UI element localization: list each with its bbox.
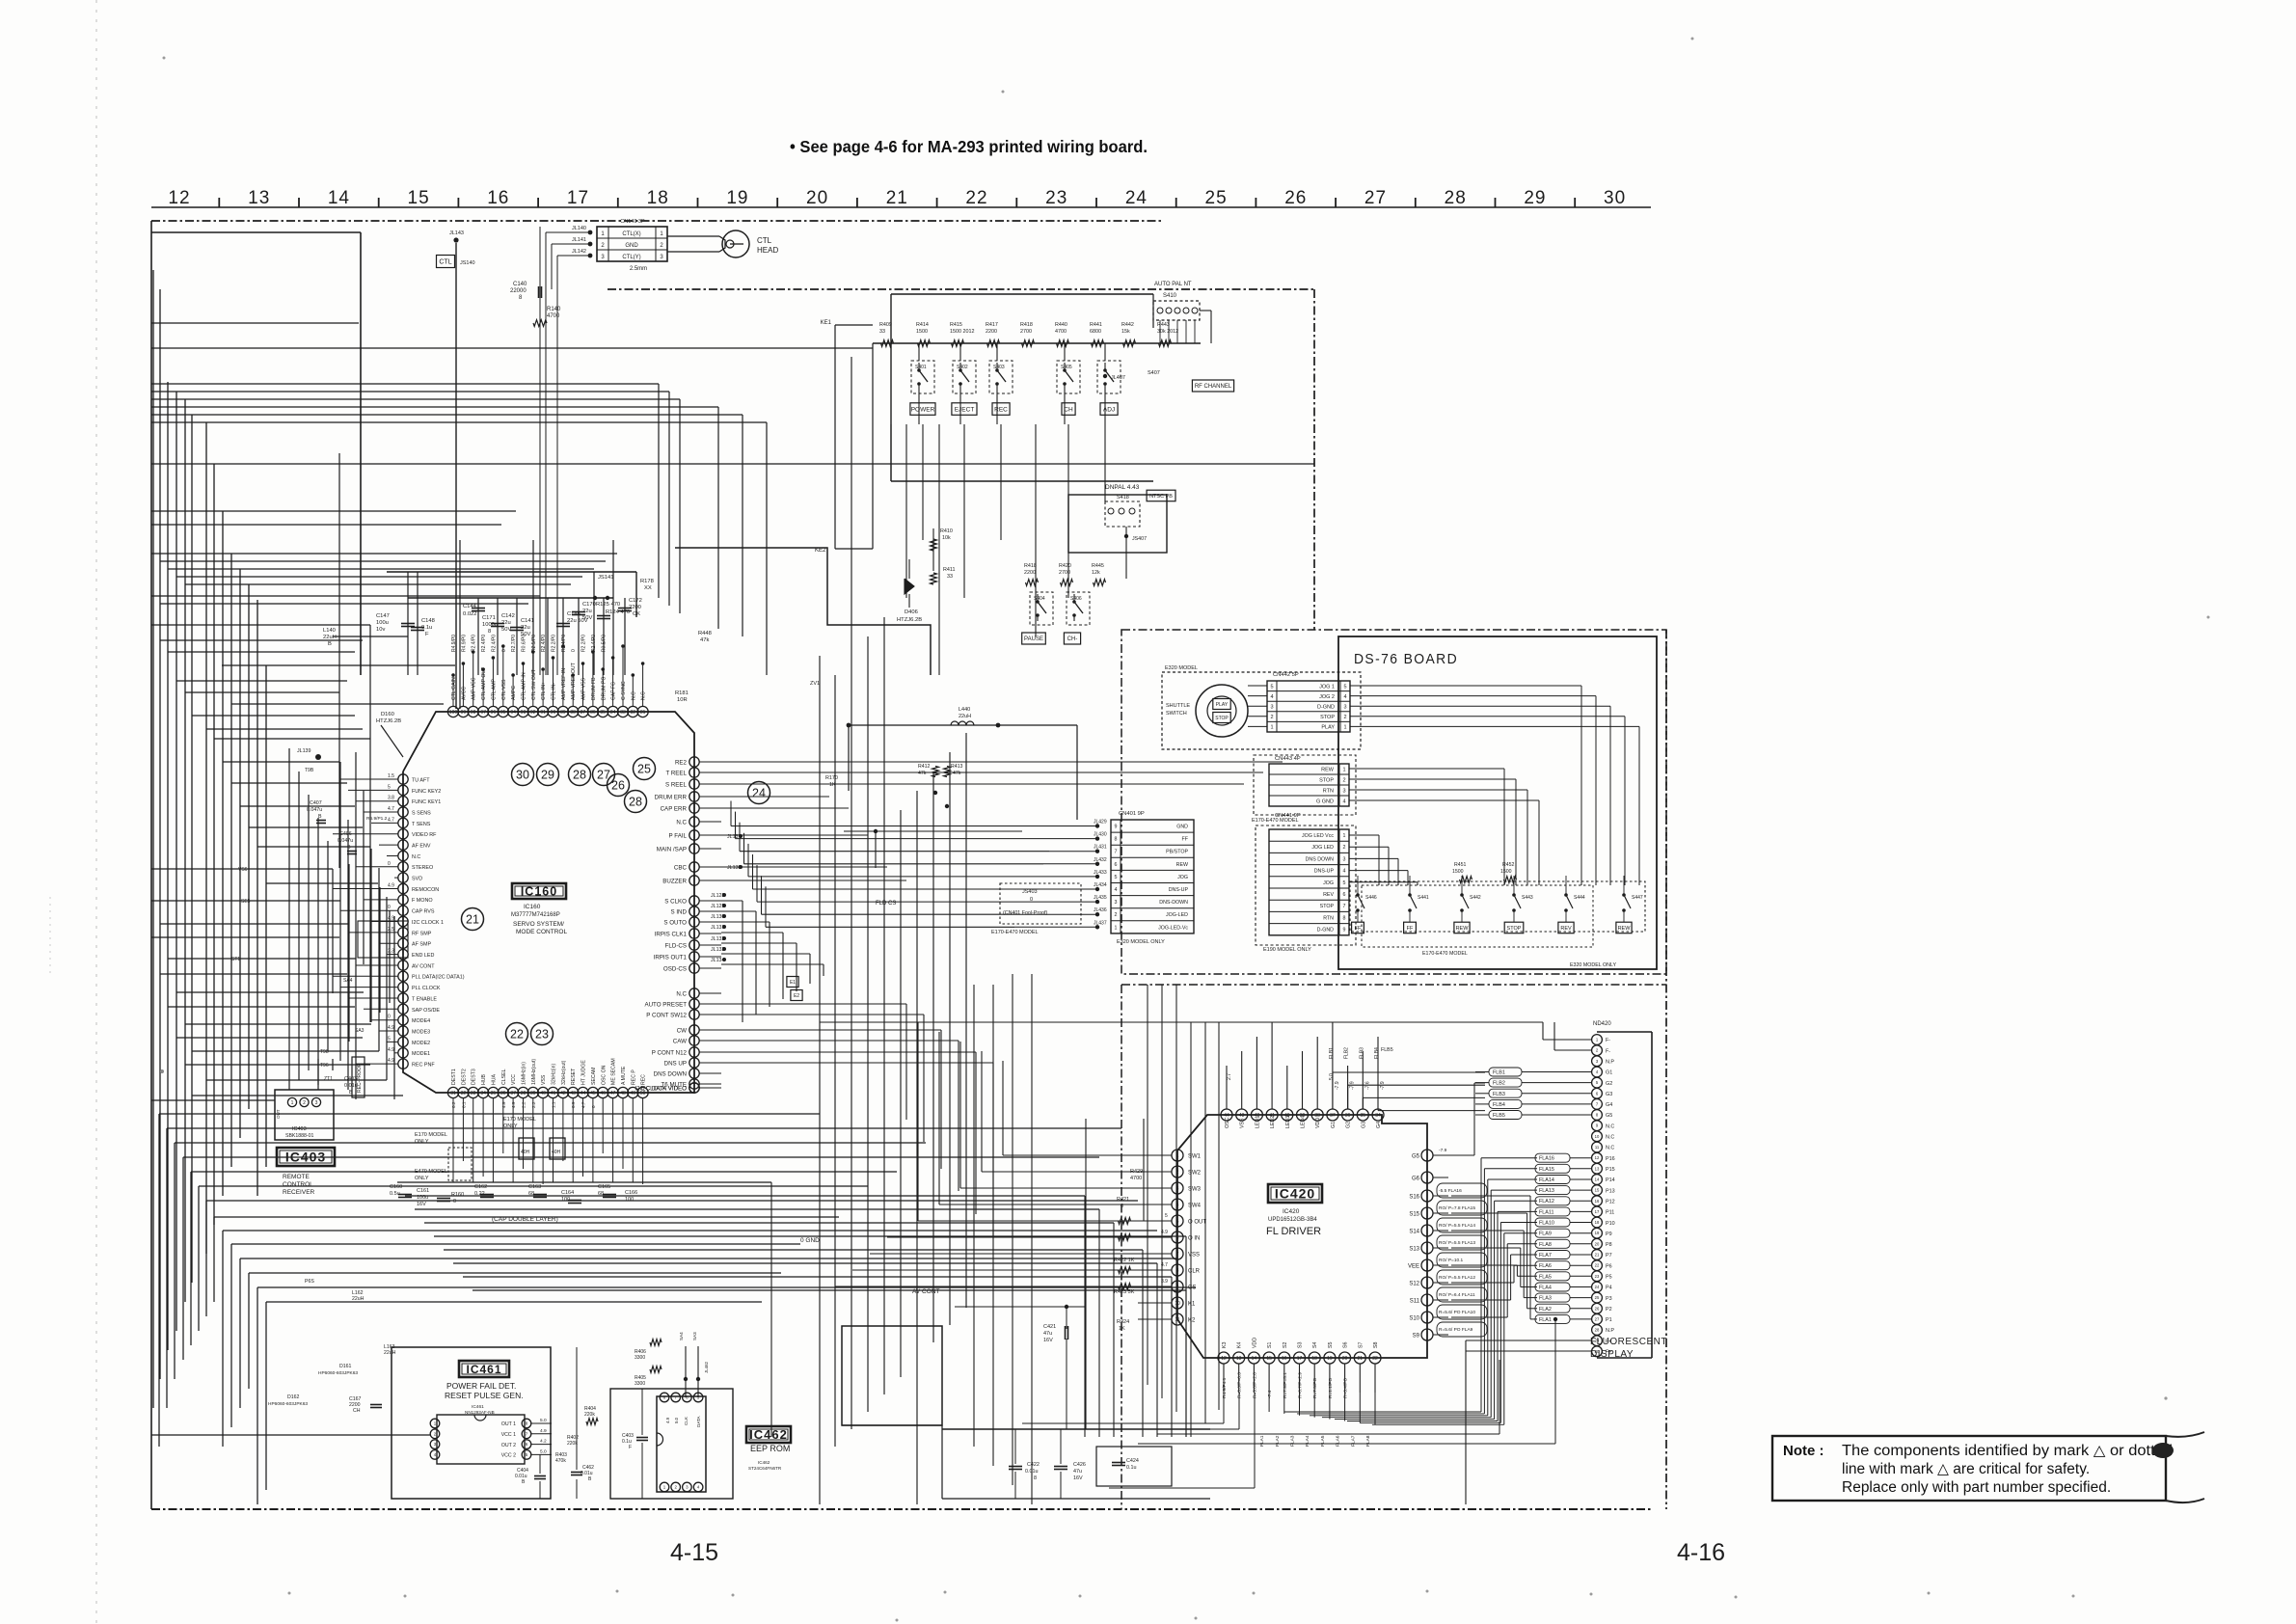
svg-text:SA4: SA4 [679, 1332, 684, 1340]
svg-text:P11: P11 [1606, 1210, 1614, 1216]
svg-text:16: 16 [1282, 1356, 1287, 1362]
svg-text:R140: R140 [547, 307, 561, 312]
svg-text:CONTROL: CONTROL [283, 1181, 313, 1188]
svg-text:B: B [347, 845, 351, 851]
svg-text:R441: R441 [1090, 322, 1102, 328]
svg-text:JL142: JL142 [572, 249, 586, 255]
svg-text:R=7.5/PO: R=7.5/PO [1312, 1378, 1318, 1398]
svg-text:C142: C142 [501, 613, 515, 619]
svg-text:C SYNC: C SYNC [621, 681, 627, 700]
svg-text:22u: 22u [501, 620, 511, 626]
svg-text:17: 17 [1595, 1209, 1600, 1214]
svg-text:HEAD: HEAD [757, 246, 778, 255]
svg-text:IC160: IC160 [521, 885, 557, 899]
svg-text:R448: R448 [698, 631, 712, 636]
svg-text:Note :: Note : [1783, 1443, 1824, 1459]
svg-text:12: 12 [168, 188, 190, 208]
svg-text:PLAY: PLAY [1321, 725, 1335, 731]
svg-text:AMPC: AMPC [511, 686, 517, 700]
svg-text:4.7: 4.7 [388, 806, 394, 812]
svg-text:• See page 4-6 for MA-293 prin: • See page 4-6 for MA-293 printed wiring… [790, 137, 1148, 156]
svg-text:JL139: JL139 [297, 748, 311, 754]
svg-text:PLAY: PLAY [1216, 702, 1229, 708]
svg-text:89: 89 [560, 710, 566, 716]
svg-text:NN1293AF-NB: NN1293AF-NB [465, 1410, 495, 1415]
svg-text:OUT 1: OUT 1 [501, 1421, 516, 1427]
svg-text:0.1u: 0.1u [1126, 1465, 1137, 1471]
svg-text:4.9: 4.9 [388, 916, 394, 922]
svg-text:AUTO PAL NT: AUTO PAL NT [1154, 282, 1192, 287]
svg-text:JS140: JS140 [460, 260, 475, 266]
svg-text:100: 100 [449, 710, 458, 716]
svg-text:RF CHANNEL: RF CHANNEL [1195, 384, 1232, 390]
svg-text:9: 9 [1115, 825, 1118, 830]
svg-text:0.2: 0.2 [451, 1101, 456, 1108]
svg-text:13: 13 [1595, 1166, 1600, 1171]
svg-text:R=3.4/PO: R=3.4/PO [1343, 1378, 1349, 1398]
svg-text:ST1: ST1 [231, 957, 240, 962]
svg-text:F-: F- [1606, 1038, 1610, 1043]
svg-text:23: 23 [535, 1027, 549, 1041]
svg-text:REC P: REC P [631, 1069, 636, 1085]
svg-text:22u: 22u [582, 609, 592, 614]
svg-text:CTL AMP: CTL AMP [491, 678, 497, 700]
svg-text:0 GND: 0 GND [800, 1237, 820, 1244]
svg-text:R2.4/P0: R2.4/P0 [491, 635, 497, 652]
svg-text:SBK1888-01: SBK1888-01 [285, 1133, 314, 1139]
svg-text:K3: K3 [1222, 1341, 1228, 1348]
svg-text:VSS: VSS [1240, 1118, 1246, 1128]
svg-text:S15: S15 [1409, 1211, 1419, 1217]
svg-text:G3: G3 [1361, 1122, 1366, 1128]
svg-text:E320 MODEL: E320 MODEL [1165, 665, 1198, 671]
svg-text:S405: S405 [1061, 365, 1072, 370]
svg-text:R443: R443 [1157, 322, 1170, 328]
svg-text:1.5: 1.5 [388, 773, 394, 779]
svg-text:26: 26 [611, 778, 625, 792]
svg-text:91: 91 [540, 710, 546, 716]
svg-text:2: 2 [1342, 778, 1345, 784]
svg-text:28: 28 [629, 795, 642, 808]
svg-text:26: 26 [1284, 188, 1307, 208]
svg-text:2.2: 2.2 [531, 1101, 536, 1108]
svg-text:470k: 470k [555, 1458, 566, 1464]
svg-text:N.C: N.C [641, 691, 647, 700]
svg-text:REW: REW [1321, 768, 1335, 773]
svg-text:8: 8 [1034, 1475, 1037, 1481]
svg-text:SERVO SYSTEM/: SERVO SYSTEM/ [513, 921, 564, 928]
svg-text:MODE3: MODE3 [412, 1030, 430, 1036]
svg-text:ZT1: ZT1 [324, 1076, 333, 1082]
svg-text:F: F [629, 1445, 632, 1450]
svg-text:CAP ERR: CAP ERR [661, 805, 688, 812]
svg-text:FLA13: FLA13 [1539, 1188, 1554, 1194]
svg-text:4700: 4700 [547, 313, 560, 319]
svg-text:R415: R415 [950, 322, 962, 328]
svg-text:11: 11 [1595, 1145, 1600, 1150]
svg-text:5: 5 [388, 784, 391, 790]
svg-text:32kHz(in): 32kHz(in) [552, 1064, 557, 1085]
svg-text:G3: G3 [1606, 1092, 1612, 1097]
svg-text:CK: CK [633, 611, 640, 617]
svg-text:S8: S8 [1373, 1341, 1379, 1348]
svg-text:E190 MODEL ONLY: E190 MODEL ONLY [1263, 947, 1311, 953]
svg-text:R2.4/P0: R2.4/P0 [541, 635, 547, 652]
svg-text:RO/ P=6.4 FLA11: RO/ P=6.4 FLA11 [1439, 1292, 1475, 1298]
svg-text:40H: 40H [521, 1150, 530, 1155]
svg-text:FLA5: FLA5 [1539, 1274, 1552, 1280]
svg-text:-5.5 FLA16: -5.5 FLA16 [1439, 1188, 1462, 1194]
svg-text:24: 24 [1595, 1285, 1600, 1289]
svg-text:36: 36 [1345, 1113, 1351, 1119]
svg-text:-7.4: -7.4 [1267, 1390, 1273, 1398]
svg-text:0.022: 0.022 [463, 611, 477, 617]
svg-text:5.0: 5.0 [540, 1448, 547, 1454]
svg-text:50V: 50V [501, 627, 511, 633]
svg-text:2.5: 2.5 [388, 927, 394, 933]
svg-text:R181: R181 [675, 690, 689, 696]
svg-text:JL431: JL431 [1094, 845, 1107, 851]
svg-text:25: 25 [1205, 188, 1228, 208]
svg-text:1: 1 [1343, 725, 1346, 731]
svg-text:14: 14 [328, 188, 350, 208]
svg-text:IC403: IC403 [292, 1126, 307, 1132]
svg-text:SHUTTLE: SHUTTLE [1166, 703, 1190, 709]
svg-text:4.2: 4.2 [540, 1439, 547, 1445]
svg-text:S410: S410 [1163, 293, 1177, 299]
svg-text:R125 470: R125 470 [596, 602, 620, 608]
svg-text:6800: 6800 [1090, 329, 1101, 335]
svg-text:22u: 22u [521, 625, 530, 631]
svg-text:0: 0 [591, 1105, 596, 1108]
svg-text:S12: S12 [1409, 1281, 1419, 1286]
svg-text:LED1: LED1 [1255, 1116, 1260, 1128]
svg-text:FLB2: FLB2 [1493, 1081, 1505, 1087]
svg-text:3: 3 [315, 1100, 318, 1106]
svg-text:FLA8: FLA8 [1365, 1435, 1371, 1447]
svg-text:27: 27 [1364, 188, 1387, 208]
svg-text:RESET: RESET [571, 1068, 577, 1085]
svg-text:EJECT: EJECT [955, 406, 975, 413]
svg-text:R410: R410 [940, 528, 953, 534]
svg-text:JS407: JS407 [1132, 536, 1147, 542]
svg-text:C146: C146 [567, 611, 581, 617]
svg-text:T9B: T9B [305, 768, 314, 773]
svg-text:33: 33 [471, 1091, 476, 1096]
svg-text:N.P: N.P [1606, 1328, 1614, 1334]
svg-text:16V: 16V [1043, 1338, 1053, 1343]
svg-text:STOP: STOP [1215, 716, 1229, 721]
svg-text:S444: S444 [1574, 895, 1585, 901]
svg-text:FLA7: FLA7 [1350, 1435, 1356, 1447]
svg-text:DRUM ERR: DRUM ERR [655, 794, 688, 800]
svg-text:15: 15 [1595, 1188, 1600, 1193]
svg-text:AMP VREF IN: AMP VREF IN [561, 668, 567, 700]
svg-text:R445: R445 [1092, 563, 1104, 569]
svg-text:T96: T96 [320, 1063, 329, 1069]
svg-text:4.9: 4.9 [388, 1047, 394, 1053]
svg-text:12k: 12k [1092, 570, 1100, 576]
svg-text:22: 22 [510, 1027, 524, 1041]
svg-text:29: 29 [541, 768, 554, 781]
svg-text:86: 86 [590, 710, 596, 716]
svg-text:CN140 3P: CN140 3P [620, 219, 645, 225]
svg-text:JOG-LED: JOG-LED [1166, 912, 1188, 918]
svg-text:FLA4: FLA4 [1539, 1286, 1552, 1291]
svg-text:REC PNF: REC PNF [412, 1063, 435, 1069]
svg-text:VCC 1: VCC 1 [501, 1432, 516, 1438]
svg-text:P7: P7 [1606, 1253, 1612, 1259]
svg-text:2700: 2700 [1020, 329, 1032, 335]
svg-text:E170-E470 MODEL: E170-E470 MODEL [1422, 951, 1468, 957]
svg-text:R2.4/P0: R2.4/P0 [481, 635, 487, 652]
svg-text:R=8.3/P=6.3: R=8.3/P=6.3 [1237, 1372, 1243, 1398]
svg-text:5: 5 [388, 1036, 391, 1042]
svg-text:4.9: 4.9 [511, 1101, 516, 1108]
svg-text:S9: S9 [1413, 1333, 1420, 1339]
svg-text:R409: R409 [879, 322, 892, 328]
svg-text:1.1: 1.1 [552, 1101, 556, 1108]
svg-text:T REEL: T REEL [665, 770, 687, 776]
svg-text:G2: G2 [1346, 1122, 1352, 1128]
svg-text:F: F [425, 632, 429, 637]
svg-text:S7: S7 [1358, 1341, 1364, 1348]
svg-text:JOG-LED-Vc: JOG-LED-Vc [1158, 925, 1188, 931]
svg-text:1000p: 1000p [482, 622, 498, 628]
svg-text:13: 13 [1236, 1356, 1242, 1362]
svg-text:CH: CH [1064, 406, 1073, 413]
svg-text:48: 48 [620, 1091, 626, 1096]
svg-text:C147: C147 [376, 613, 390, 619]
svg-text:4: 4 [1343, 869, 1346, 875]
svg-text:N.C: N.C [412, 854, 420, 860]
svg-text:10: 10 [1175, 1301, 1180, 1307]
svg-text:SVD: SVD [412, 877, 422, 882]
svg-text:ST24C64FN6TR: ST24C64FN6TR [748, 1466, 782, 1471]
svg-text:CH-: CH- [1067, 636, 1078, 642]
svg-text:21: 21 [886, 188, 908, 208]
svg-text:JL433: JL433 [1094, 870, 1107, 876]
svg-text:5: 5 [1343, 880, 1346, 886]
svg-text:C160: C160 [390, 1184, 402, 1190]
svg-text:DEST2: DEST2 [461, 1069, 467, 1085]
svg-text:C141: C141 [521, 618, 534, 624]
svg-text:JOG: JOG [1177, 875, 1188, 880]
svg-text:3300: 3300 [635, 1381, 645, 1387]
svg-text:47k: 47k [700, 637, 709, 643]
svg-text:100u: 100u [417, 1195, 428, 1201]
svg-text:19: 19 [1327, 1356, 1333, 1362]
svg-text:30: 30 [1604, 188, 1626, 208]
svg-text:REW: REW [1618, 926, 1632, 932]
svg-text:23: 23 [1595, 1274, 1600, 1279]
svg-text:AV CONT: AV CONT [912, 1288, 939, 1295]
svg-text:41: 41 [551, 1091, 556, 1096]
svg-text:line with mark △ are critical: line with mark △ are critical for safety… [1842, 1461, 2090, 1477]
svg-text:C162: C162 [474, 1184, 487, 1190]
svg-text:DISPLAY: DISPLAY [1590, 1349, 1634, 1360]
svg-text:FLA12: FLA12 [1539, 1199, 1554, 1204]
svg-text:CN441 9P: CN441 9P [1275, 813, 1301, 819]
svg-text:2200: 2200 [1024, 570, 1036, 576]
svg-text:P16: P16 [1606, 1156, 1615, 1162]
svg-text:S OUTO: S OUTO [663, 919, 687, 926]
svg-text:CTL: CTL [439, 259, 451, 266]
svg-text:JL462: JL462 [704, 1361, 709, 1373]
svg-text:VCC 2: VCC 2 [501, 1453, 516, 1459]
svg-text:FLD CS: FLD CS [876, 901, 896, 907]
svg-text:S407: S407 [1148, 370, 1160, 376]
svg-text:FLUORESCENT: FLUORESCENT [1590, 1337, 1667, 1347]
svg-text:JS403: JS403 [1022, 889, 1038, 895]
svg-text:IRPIS OUT1: IRPIS OUT1 [654, 954, 688, 961]
svg-text:40H: 40H [552, 1150, 561, 1155]
svg-text:24: 24 [752, 786, 766, 799]
svg-text:S403: S403 [993, 365, 1005, 370]
svg-text:S3: S3 [1298, 1341, 1304, 1348]
svg-text:37: 37 [510, 1091, 516, 1096]
svg-text:K1: K1 [1188, 1301, 1196, 1307]
svg-text:L140: L140 [323, 628, 336, 634]
svg-text:28: 28 [1595, 1328, 1600, 1333]
svg-text:T SENS: T SENS [412, 822, 431, 827]
svg-text:CTL SW OUT: CTL SW OUT [531, 668, 537, 700]
svg-text:2: 2 [1270, 715, 1273, 720]
svg-text:POWER: POWER [911, 406, 935, 413]
svg-text:P FAIL: P FAIL [669, 832, 688, 839]
svg-text:3: 3 [1342, 789, 1345, 795]
svg-text:1: 1 [1343, 833, 1346, 839]
svg-text:CTL AMP OUT: CTL AMP OUT [481, 666, 487, 700]
svg-text:23: 23 [1045, 188, 1067, 208]
svg-text:E1: E1 [790, 980, 796, 986]
svg-text:FLA14: FLA14 [1539, 1177, 1554, 1183]
svg-text:FLA10: FLA10 [1539, 1221, 1554, 1227]
svg-text:CH: CH [353, 1408, 361, 1414]
svg-text:R452: R452 [1502, 862, 1515, 868]
svg-text:18: 18 [1311, 1356, 1317, 1362]
svg-text:47u: 47u [1073, 1469, 1082, 1475]
svg-text:C140: C140 [513, 282, 527, 287]
svg-text:JL141: JL141 [572, 237, 586, 243]
svg-text:SA4: SA4 [343, 978, 353, 984]
svg-text:82: 82 [631, 710, 636, 716]
svg-text:7: 7 [1115, 850, 1118, 855]
svg-text:16: 16 [1595, 1199, 1600, 1204]
svg-text:C171: C171 [482, 615, 496, 621]
svg-text:85: 85 [600, 710, 606, 716]
svg-text:OUT 2: OUT 2 [501, 1443, 516, 1448]
svg-text:HT JUDGE: HT JUDGE [581, 1060, 587, 1085]
svg-text:7: 7 [1343, 904, 1346, 909]
svg-text:DNS UP: DNS UP [664, 1060, 687, 1067]
svg-text:4.7: 4.7 [388, 817, 394, 823]
svg-text:5.0: 5.0 [540, 1418, 547, 1423]
svg-text:34: 34 [1375, 1113, 1381, 1119]
svg-text:0.9: 0.9 [571, 1101, 576, 1108]
svg-text:R=0.7/P=2.9: R=0.7/P=2.9 [1298, 1372, 1304, 1398]
svg-text:4.9: 4.9 [388, 1058, 394, 1064]
svg-text:S443: S443 [1522, 895, 1533, 901]
svg-text:B: B [328, 641, 332, 647]
svg-text:98: 98 [471, 710, 476, 716]
svg-text:CN442 5P: CN442 5P [1273, 672, 1299, 678]
svg-text:C407: C407 [310, 800, 322, 806]
svg-text:(CAP DOUBLE LAYER): (CAP DOUBLE LAYER) [492, 1216, 558, 1223]
svg-text:FLA7: FLA7 [1539, 1253, 1552, 1259]
svg-text:GND: GND [1176, 825, 1188, 830]
svg-text:R4.9/P0: R4.9/P0 [451, 635, 457, 652]
svg-text:0: 0 [501, 649, 507, 652]
svg-text:KE2: KE2 [815, 548, 826, 554]
svg-text:50V: 50V [582, 615, 592, 621]
svg-text:JL435: JL435 [1094, 895, 1107, 901]
svg-text:I2C CLOCK 1: I2C CLOCK 1 [412, 920, 444, 926]
svg-text:97: 97 [480, 710, 486, 716]
svg-text:88: 88 [570, 710, 576, 716]
svg-text:R2.4/P0: R2.4/P0 [472, 635, 477, 652]
svg-text:E170-E470 MODEL: E170-E470 MODEL [991, 930, 1039, 935]
svg-text:4700: 4700 [1130, 1176, 1142, 1181]
svg-text:R170: R170 [825, 775, 838, 781]
svg-text:O IN: O IN [1188, 1235, 1200, 1241]
svg-text:REMOCON: REMOCON [412, 887, 439, 893]
svg-text:0.1u: 0.1u [421, 625, 432, 631]
svg-text:FLA6: FLA6 [1539, 1263, 1552, 1269]
svg-text:N.P: N.P [1606, 1060, 1614, 1066]
svg-text:N.C: N.C [1606, 1146, 1614, 1151]
svg-text:4.9: 4.9 [388, 1025, 394, 1031]
svg-text:HP6060-603JPK63: HP6060-603JPK63 [268, 1401, 308, 1407]
svg-text:27: 27 [1595, 1316, 1600, 1321]
svg-text:25: 25 [637, 762, 651, 775]
svg-text:R422 1K: R422 1K [1114, 1258, 1135, 1263]
svg-text:S447: S447 [1632, 895, 1643, 901]
svg-text:C166: C166 [625, 1190, 637, 1196]
svg-text:VSS: VSS [541, 1074, 547, 1085]
svg-text:4.7: 4.7 [581, 1101, 586, 1108]
svg-text:M37777M742168P: M37777M742168P [511, 912, 560, 918]
svg-text:JL140: JL140 [572, 226, 586, 231]
svg-text:20: 20 [1595, 1241, 1600, 1246]
svg-text:22uH: 22uH [384, 1350, 396, 1356]
svg-text:E2: E2 [794, 993, 799, 999]
svg-text:JL436: JL436 [1094, 907, 1107, 913]
svg-text:JOG LED: JOG LED [1311, 845, 1334, 851]
svg-text:IC160: IC160 [524, 904, 541, 910]
svg-text:G GND: G GND [1316, 799, 1334, 805]
svg-text:R440: R440 [1055, 322, 1067, 328]
svg-text:REC: REC [641, 1074, 647, 1085]
svg-text:OSC ON: OSC ON [601, 1065, 607, 1085]
svg-text:18: 18 [1595, 1220, 1600, 1225]
svg-text:1: 1 [1270, 725, 1273, 731]
svg-text:S5: S5 [1328, 1341, 1334, 1348]
svg-text:5: 5 [1165, 1213, 1168, 1219]
svg-text:22uH: 22uH [323, 635, 337, 640]
svg-text:94: 94 [510, 710, 516, 716]
svg-text:ND420: ND420 [1593, 1021, 1611, 1027]
svg-text:DEST3: DEST3 [472, 1069, 477, 1085]
svg-text:100u: 100u [376, 620, 389, 626]
svg-text:100: 100 [625, 1197, 634, 1203]
svg-text:IRPIS CLK1: IRPIS CLK1 [655, 931, 688, 937]
svg-text:20: 20 [806, 188, 828, 208]
svg-text:JL429: JL429 [1094, 820, 1107, 826]
svg-text:15: 15 [1266, 1356, 1272, 1362]
svg-text:S14: S14 [1409, 1229, 1419, 1234]
svg-text:D-GND: D-GND [1317, 928, 1335, 934]
